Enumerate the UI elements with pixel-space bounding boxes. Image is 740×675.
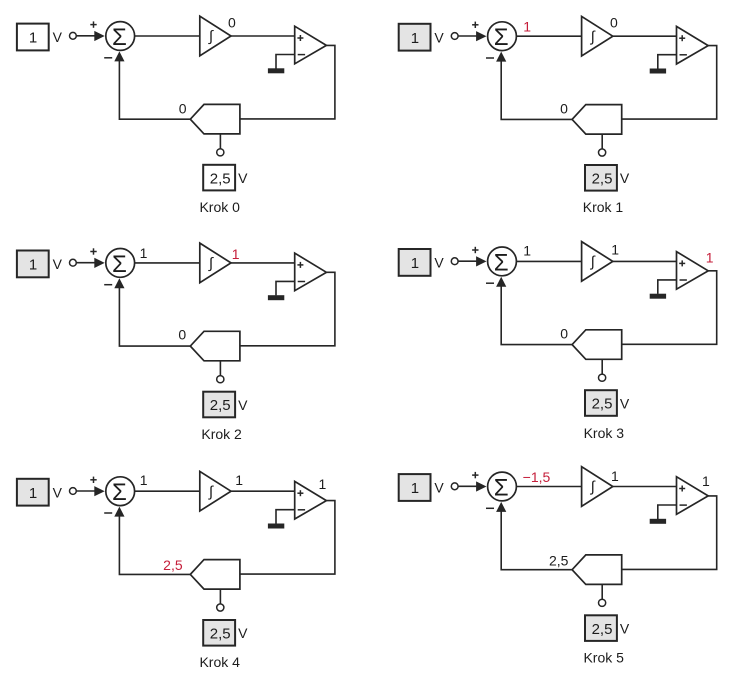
wire: input terminal to summer xyxy=(77,35,95,37)
summer (sigma) block xyxy=(106,22,135,51)
wire: summer to integrator xyxy=(135,262,200,264)
wire: comparator minus input to ground xyxy=(658,55,677,69)
ground symbol xyxy=(268,68,284,73)
Krok 3 subcircuit xyxy=(399,241,717,441)
arrowhead into summer + input xyxy=(476,31,486,41)
attenuator control terminal node xyxy=(599,599,606,606)
Krok 4 subcircuit xyxy=(17,471,335,670)
ground symbol xyxy=(650,69,666,74)
input terminal node xyxy=(70,32,77,39)
wire: comparator output down to feedback block xyxy=(622,271,717,345)
attenuator control terminal node xyxy=(217,376,224,383)
wire: attenuator control stub xyxy=(219,361,221,376)
reference voltage box: value 2,5 xyxy=(203,165,235,191)
svg-text:2,5: 2,5 xyxy=(592,621,613,638)
wire: comparator minus input to ground xyxy=(276,55,295,69)
svg-text:0: 0 xyxy=(610,15,618,31)
svg-text:Krok 4: Krok 4 xyxy=(199,654,240,670)
svg-text:1: 1 xyxy=(140,472,148,488)
summer (sigma) block xyxy=(488,247,517,276)
Krok 5 subcircuit xyxy=(399,467,717,666)
arrowhead into summer minus input xyxy=(496,502,506,512)
svg-text:2,5: 2,5 xyxy=(549,553,569,569)
wire: integrator to comparator xyxy=(613,35,677,37)
wire: input terminal to summer xyxy=(458,485,476,487)
Krok 1 subcircuit xyxy=(399,15,717,215)
svg-text:V: V xyxy=(434,255,444,271)
wire: input terminal to summer xyxy=(458,35,476,37)
svg-text:V: V xyxy=(620,170,630,186)
svg-text:1: 1 xyxy=(411,255,419,272)
ground symbol xyxy=(650,519,666,524)
arrowhead into summer + input xyxy=(94,31,104,41)
wire: feedback to summer minus input xyxy=(501,61,572,119)
ground symbol xyxy=(268,524,284,529)
summer (sigma) block xyxy=(106,477,135,506)
svg-text:Σ: Σ xyxy=(494,249,509,276)
arrowhead into summer minus input xyxy=(114,507,124,517)
svg-text:1: 1 xyxy=(706,250,714,266)
arrowhead into summer minus input xyxy=(114,51,124,61)
wire: input terminal to summer xyxy=(77,262,95,264)
comparator (op-amp) block xyxy=(677,477,709,515)
wire: attenuator control stub xyxy=(601,584,603,599)
minus sign at summer feedback input xyxy=(104,284,112,286)
plus sign at summer input xyxy=(90,477,96,483)
wire: integrator to comparator xyxy=(231,490,295,492)
comparator (op-amp) block xyxy=(295,26,327,64)
svg-text:1: 1 xyxy=(611,241,619,257)
plus sign at summer input xyxy=(472,22,478,28)
wire: attenuator control stub xyxy=(219,589,221,604)
svg-text:V: V xyxy=(53,484,63,500)
wire: input terminal to summer xyxy=(77,490,95,492)
integrator block xyxy=(200,471,231,511)
summer (sigma) block xyxy=(106,249,135,278)
feedback attenuator block xyxy=(190,560,240,589)
voltage source box Krok 4: value 1 xyxy=(17,479,49,506)
wire: summer to integrator xyxy=(135,35,200,37)
svg-text:2,5: 2,5 xyxy=(210,626,231,643)
arrowhead into summer + input xyxy=(476,481,486,491)
feedback attenuator block xyxy=(190,331,240,361)
summer (sigma) block xyxy=(488,472,517,501)
svg-text:1: 1 xyxy=(319,476,327,492)
arrowhead into summer minus input xyxy=(114,278,124,288)
integrator block xyxy=(200,243,231,283)
wire: attenuator control stub xyxy=(601,359,603,374)
feedback attenuator block xyxy=(190,104,240,133)
wire: comparator minus input to ground xyxy=(658,280,677,294)
svg-text:Krok 1: Krok 1 xyxy=(583,199,624,215)
wire: comparator output down to feedback block xyxy=(240,45,335,119)
svg-text:Krok 3: Krok 3 xyxy=(584,425,625,441)
svg-text:Krok 2: Krok 2 xyxy=(201,426,242,442)
plus sign at summer input xyxy=(90,248,96,254)
svg-text:V: V xyxy=(434,29,444,45)
integrator block xyxy=(200,16,231,56)
reference voltage box: value 2,5 xyxy=(203,620,235,646)
svg-text:2,5: 2,5 xyxy=(592,396,613,413)
svg-text:2,5: 2,5 xyxy=(163,557,183,573)
voltage source box Krok 1: value 1 xyxy=(399,24,431,51)
svg-text:0: 0 xyxy=(560,325,568,341)
wire: attenuator control stub xyxy=(601,134,603,149)
svg-text:1: 1 xyxy=(29,30,37,47)
wire: feedback to summer minus input xyxy=(119,288,190,346)
plus sign at summer input xyxy=(472,472,478,478)
minus sign at summer feedback input xyxy=(486,507,494,509)
svg-text:V: V xyxy=(620,621,630,637)
wire: summer to integrator xyxy=(135,490,200,492)
svg-text:Σ: Σ xyxy=(112,479,127,506)
wire: integrator to comparator xyxy=(231,35,295,37)
summer (sigma) block xyxy=(488,22,517,51)
minus sign at summer feedback input xyxy=(486,57,494,59)
svg-text:V: V xyxy=(434,480,444,496)
comparator (op-amp) block xyxy=(677,252,709,290)
svg-text:0: 0 xyxy=(560,100,568,116)
wire: comparator minus input to ground xyxy=(658,505,677,519)
comparator (op-amp) block xyxy=(295,481,327,519)
wire: integrator to comparator xyxy=(613,260,677,262)
wire: summer to integrator xyxy=(517,486,582,488)
wire: comparator output down to feedback block xyxy=(622,46,717,120)
minus sign at summer feedback input xyxy=(486,282,494,284)
svg-text:V: V xyxy=(620,395,630,411)
reference voltage box: value 2,5 xyxy=(203,392,235,418)
voltage source box Krok 2: value 1 xyxy=(17,251,49,278)
wire: attenuator control stub xyxy=(219,134,221,149)
wire: summer to integrator xyxy=(517,35,582,37)
comparator (op-amp) block xyxy=(295,253,327,291)
svg-text:1: 1 xyxy=(140,245,148,261)
feedback attenuator block xyxy=(572,105,622,134)
input terminal node xyxy=(70,259,77,266)
feedback attenuator block xyxy=(572,330,622,360)
attenuator control terminal node xyxy=(599,149,606,156)
svg-text:0: 0 xyxy=(179,101,187,117)
feedback attenuator block xyxy=(572,555,622,585)
input terminal node xyxy=(451,483,458,490)
wire: feedback to summer minus input xyxy=(501,286,572,344)
wire: comparator output down to feedback block xyxy=(240,272,335,346)
svg-text:1: 1 xyxy=(29,485,37,502)
arrowhead into summer + input xyxy=(94,486,104,496)
svg-text:Σ: Σ xyxy=(494,24,509,51)
svg-text:1: 1 xyxy=(411,30,419,47)
Krok 2 subcircuit xyxy=(17,243,335,442)
wire: integrator to comparator xyxy=(613,486,677,488)
reference voltage box: value 2,5 xyxy=(585,165,617,191)
svg-text:V: V xyxy=(238,625,248,641)
svg-text:1: 1 xyxy=(29,257,37,274)
svg-text:V: V xyxy=(53,256,63,272)
voltage source box Krok 5: value 1 xyxy=(399,474,431,501)
svg-text:Krok 0: Krok 0 xyxy=(199,199,240,215)
arrowhead into summer + input xyxy=(476,256,486,266)
integrator block xyxy=(582,467,613,507)
svg-text:0: 0 xyxy=(178,327,186,343)
wire: feedback to summer minus input xyxy=(501,512,572,570)
svg-text:Σ: Σ xyxy=(112,251,127,278)
attenuator control terminal node xyxy=(217,604,224,611)
arrowhead into summer + input xyxy=(94,258,104,268)
minus sign at summer feedback input xyxy=(104,512,112,514)
svg-text:1: 1 xyxy=(523,242,531,258)
svg-text:2,5: 2,5 xyxy=(210,170,231,187)
wire: summer to integrator xyxy=(517,260,582,262)
wire: feedback to summer minus input xyxy=(119,61,190,119)
svg-text:−1,5: −1,5 xyxy=(523,469,551,485)
plus sign at summer input xyxy=(472,247,478,253)
voltage source box Krok 0: value 1 xyxy=(17,24,49,51)
svg-text:Krok 5: Krok 5 xyxy=(583,649,624,665)
plus sign at summer input xyxy=(90,21,96,27)
svg-text:1: 1 xyxy=(411,480,419,497)
ground symbol xyxy=(268,295,284,300)
ground symbol xyxy=(650,294,666,299)
svg-text:2,5: 2,5 xyxy=(210,397,231,414)
wire: comparator output down to feedback block xyxy=(240,501,335,575)
arrowhead into summer minus input xyxy=(496,277,506,287)
svg-text:1: 1 xyxy=(523,19,531,35)
svg-text:V: V xyxy=(53,29,63,45)
voltage source box Krok 3: value 1 xyxy=(399,249,431,276)
svg-text:1: 1 xyxy=(232,246,240,262)
svg-text:V: V xyxy=(238,397,248,413)
arrowhead into summer minus input xyxy=(496,52,506,62)
svg-text:Σ: Σ xyxy=(112,24,127,51)
wire: comparator minus input to ground xyxy=(276,510,295,524)
comparator (op-amp) block xyxy=(677,26,709,64)
input terminal node xyxy=(451,258,458,265)
input terminal node xyxy=(451,33,458,40)
svg-text:0: 0 xyxy=(228,15,236,31)
Krok 0 subcircuit xyxy=(17,15,335,215)
wire: input terminal to summer xyxy=(458,260,476,262)
wire: integrator to comparator xyxy=(231,262,295,264)
wire: comparator output down to feedback block xyxy=(622,496,717,570)
attenuator control terminal node xyxy=(599,374,606,381)
attenuator control terminal node xyxy=(217,149,224,156)
integrator block xyxy=(582,16,613,56)
svg-text:1: 1 xyxy=(235,472,243,488)
svg-text:1: 1 xyxy=(702,473,710,489)
svg-text:Σ: Σ xyxy=(494,475,509,502)
minus sign at summer feedback input xyxy=(104,57,112,59)
reference voltage box: value 2,5 xyxy=(585,390,617,416)
integrator block xyxy=(582,242,613,282)
svg-text:1: 1 xyxy=(611,468,619,484)
reference voltage box: value 2,5 xyxy=(585,615,617,641)
svg-text:V: V xyxy=(238,170,248,186)
svg-text:2,5: 2,5 xyxy=(592,171,613,188)
wire: feedback to summer minus input xyxy=(119,516,190,574)
wire: comparator minus input to ground xyxy=(276,281,295,295)
input terminal node xyxy=(70,488,77,495)
